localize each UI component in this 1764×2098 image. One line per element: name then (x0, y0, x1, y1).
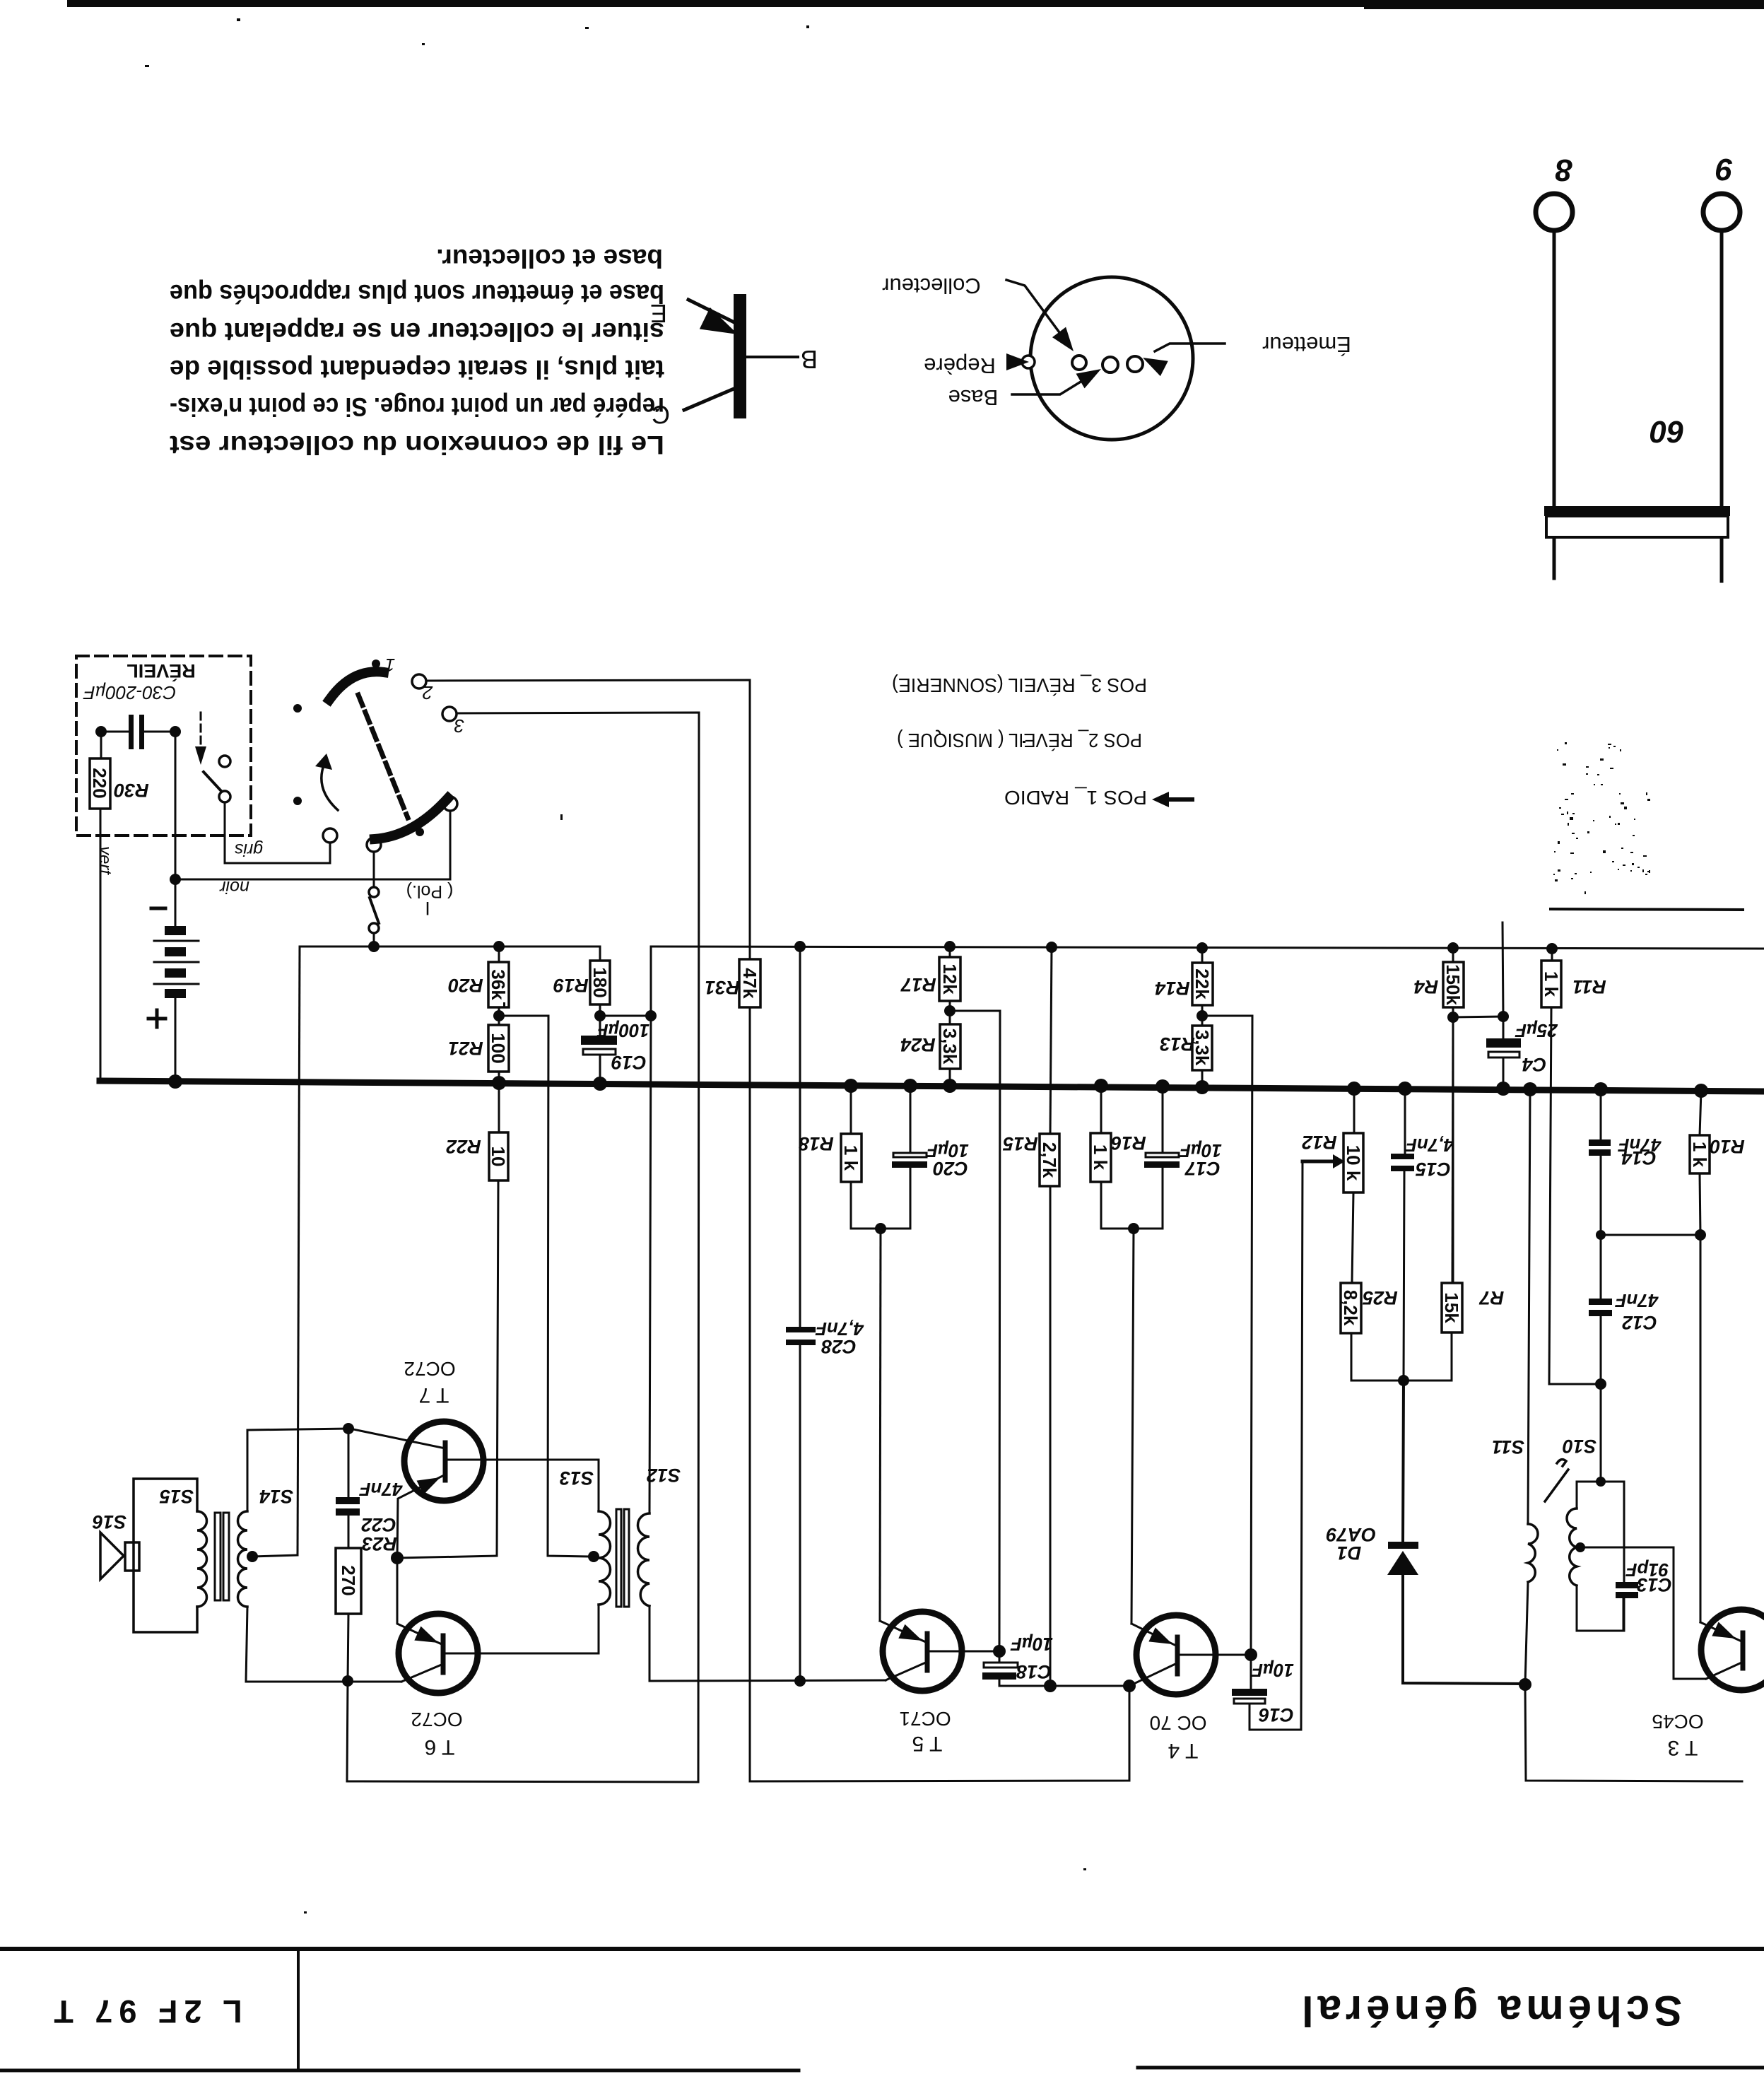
node C20 top (903, 1079, 917, 1093)
svg-text:10µF: 10µF (1010, 1634, 1053, 1655)
wire R16 bottom (1101, 1182, 1134, 1229)
node R13 bottom (1195, 1080, 1209, 1094)
wire D1 bottom (1403, 1575, 1525, 1684)
svg-text:OC71: OC71 (899, 1708, 951, 1730)
wire R25 R7 bottom bus (1351, 1332, 1452, 1381)
battery minus sign (151, 907, 165, 910)
rotary arc dot (416, 828, 424, 836)
node D1 top (1398, 1375, 1409, 1386)
gris contact circle (323, 828, 337, 843)
svg-text:R23: R23 (362, 1533, 397, 1554)
node switch on minus rail (368, 941, 380, 952)
svg-text:POS 1_ RADIO: POS 1_ RADIO (1004, 787, 1147, 809)
svg-text:R31: R31 (705, 977, 740, 998)
svg-text:R13: R13 (1160, 1033, 1195, 1055)
svg-text:S10: S10 (1563, 1436, 1597, 1457)
wire junction down to S10 top (1600, 1384, 1602, 1482)
package pin collecteur (1072, 356, 1086, 370)
svg-text:36k: 36k (488, 969, 509, 1000)
svg-text:9: 9 (1715, 152, 1733, 187)
wire C18 bottom bus (999, 1685, 1129, 1687)
node R14 R13 junction (1196, 1010, 1208, 1021)
wire terminal 3 (457, 713, 699, 1782)
svg-text:R11: R11 (1572, 976, 1606, 997)
battery cell 2 (165, 947, 186, 956)
wire C17 bottom (1134, 1168, 1163, 1229)
svg-text:S11: S11 (1492, 1436, 1524, 1458)
svg-text:T 3: T 3 (1668, 1736, 1698, 1759)
svg-text:C30-200µF: C30-200µF (83, 682, 177, 703)
rotary pivot contact (443, 797, 457, 811)
svg-text:T 5: T 5 (912, 1732, 943, 1755)
resistor R25 (1341, 1283, 1361, 1333)
svg-text:47k: 47k (739, 968, 760, 999)
wire C30 left (101, 731, 129, 733)
scan speckle noise (145, 18, 1650, 1914)
S10 tap (1575, 1542, 1585, 1552)
wire R15 bottom (1049, 1186, 1052, 1686)
T4 emitter (1131, 1624, 1177, 1646)
node C12 S10 junction (1595, 1378, 1606, 1390)
svg-text:noir: noir (218, 877, 249, 897)
wire S12 bottom to T5 collector (649, 1680, 886, 1681)
wire rail A to S14 tap (298, 947, 300, 1555)
svg-text:3: 3 (454, 715, 464, 737)
POS arrow (1163, 797, 1194, 802)
battery plus sign (148, 1010, 165, 1027)
T5 base lead (930, 1651, 999, 1653)
coil S10 (1577, 1482, 1601, 1508)
svg-text:R7: R7 (1478, 1287, 1504, 1308)
paragraph text block (170, 244, 664, 459)
rotary switch upper arc (329, 672, 384, 700)
svg-text:Repère: Repère (924, 353, 996, 378)
svg-text:8,2k: 8,2k (1340, 1290, 1361, 1326)
svg-text:I: I (425, 898, 430, 919)
resistor R18 (841, 1134, 862, 1182)
resistor R30 (90, 758, 110, 809)
svg-text:Émetteur: Émetteur (1262, 332, 1351, 357)
rotary terminal 3 (442, 707, 457, 721)
svg-text:R10: R10 (1710, 1136, 1745, 1157)
speaker S16 (125, 1542, 139, 1571)
reveil switch contact top (219, 756, 230, 767)
wire junction to T5 base column (950, 1011, 1000, 1651)
capacitor C18 (984, 1663, 1018, 1668)
wire node to R30 (100, 732, 102, 758)
T5 emitter (880, 1621, 927, 1643)
svg-text:S13: S13 (560, 1467, 594, 1489)
svg-text:15k: 15k (1441, 1292, 1462, 1323)
wire S12 primary riser (649, 947, 651, 1513)
svg-text:C28: C28 (821, 1336, 857, 1357)
node R12 top (1347, 1082, 1361, 1096)
svg-text:POS 2_ RÉVEIL ( MUSIQUE ): POS 2_ RÉVEIL ( MUSIQUE ) (897, 729, 1142, 751)
minus rail segment A (300, 946, 599, 948)
node T4 base / C16 (1245, 1648, 1257, 1661)
wire C4 stub up (1503, 922, 1503, 1016)
T6 emitter (397, 1558, 443, 1645)
package pin emetteur (1127, 356, 1143, 372)
svg-text:C18: C18 (1016, 1661, 1052, 1682)
svg-text:R12: R12 (1302, 1132, 1337, 1153)
wire junction to S13 tap column (499, 1016, 589, 1557)
wire R12 bottom to R25 (1352, 1192, 1353, 1283)
resistor R21 (488, 1025, 509, 1072)
rotary lower arc (375, 798, 448, 839)
resistor R22 (489, 1132, 508, 1180)
T7 collector (350, 1429, 445, 1448)
terminal 8 (1536, 194, 1572, 230)
capacitor C16 (1232, 1689, 1267, 1696)
svg-text:T 6: T 6 (425, 1735, 455, 1759)
node R16 top (1094, 1079, 1108, 1093)
svg-text:C4: C4 (1522, 1054, 1547, 1075)
svg-text:3,3k: 3,3k (1192, 1030, 1213, 1066)
rotary terminal 2 (412, 674, 426, 688)
battery cell 1 (165, 926, 186, 935)
svg-text:OC45: OC45 (1652, 1711, 1703, 1733)
T6 collector (401, 1664, 443, 1682)
node T5 emitter junction (875, 1223, 886, 1234)
node R11 top (1546, 943, 1558, 954)
rotary switch position dot left upper (293, 704, 302, 713)
svg-text:60: 60 (1650, 414, 1684, 449)
svg-text:R15: R15 (1002, 1133, 1038, 1154)
package repere notch (1022, 356, 1035, 368)
svg-text:1 k: 1 k (1689, 1142, 1710, 1168)
svg-text:E: E (650, 299, 667, 328)
svg-text:R22: R22 (446, 1136, 481, 1157)
node emitter bus (391, 1552, 404, 1564)
node R14 top (1196, 942, 1208, 954)
wire R23 node down to wire A (347, 1681, 698, 1782)
wire T5 emitter riser (880, 1229, 881, 1621)
minus rail segment B (651, 947, 1764, 949)
svg-text:R30: R30 (114, 780, 149, 801)
resistor R15 (1040, 1134, 1059, 1186)
node battery on rail (168, 1074, 182, 1089)
package diagram circle (1030, 277, 1193, 440)
svg-text:R4: R4 (1414, 976, 1439, 997)
svg-text:C15: C15 (1415, 1159, 1451, 1180)
EBC emitter lead (688, 300, 739, 324)
EBC base lead (746, 356, 798, 358)
svg-text:C12: C12 (1622, 1312, 1657, 1333)
node R10 C14 junction (1695, 1229, 1706, 1241)
node R10 top (1694, 1084, 1708, 1098)
capacitor C17 (1146, 1153, 1179, 1157)
node T4 emitter junction (1128, 1223, 1139, 1234)
R12 wiper arrow (1303, 1160, 1333, 1164)
EBC emitter arrow (700, 307, 743, 345)
wire T4 emitter riser (1131, 1229, 1134, 1624)
svg-text:RÉVEIL: RÉVEIL (127, 660, 196, 682)
svg-text:12k: 12k (939, 963, 960, 995)
EBC collector lead (684, 387, 737, 410)
diode D1 (1403, 1381, 1404, 1545)
wire R11 down to S10 (1549, 1007, 1601, 1384)
resistor R10 (1690, 1135, 1710, 1173)
capacitor C4 (1486, 1038, 1521, 1048)
svg-text:R25: R25 (1362, 1287, 1398, 1308)
node C28 column top (794, 941, 806, 952)
S13 center tap node (588, 1551, 599, 1562)
resistor R19 (590, 961, 610, 1004)
audio bottom wire (246, 1681, 401, 1683)
S10 trimmer arrow (1545, 1470, 1568, 1501)
terminal 9 (1703, 194, 1740, 230)
reveil switch blade (204, 772, 221, 791)
T7 base lead to S13 (448, 1459, 599, 1461)
svg-text:C19: C19 (611, 1052, 647, 1073)
wire terminal2 through R31 down (749, 1007, 751, 1781)
T4 collector (1129, 1664, 1175, 1686)
node C30 left (95, 726, 107, 737)
svg-text:270: 270 (338, 1565, 359, 1595)
capacitor C14 (1589, 1139, 1611, 1146)
svg-text:R14: R14 (1155, 978, 1190, 999)
svg-text:situer le collecteur en se rap: situer le collecteur en se rappelant que (170, 317, 664, 346)
T7 emitter (397, 1475, 445, 1558)
svg-text:180: 180 (589, 967, 611, 997)
node R23 bottom (342, 1675, 353, 1687)
node R19 C19 junction (594, 1010, 606, 1021)
capacitor C28 (786, 1327, 816, 1332)
transistor symbol EBC: base bar (734, 294, 746, 418)
resistor R31 (739, 959, 760, 1007)
svg-text:R21: R21 (448, 1038, 483, 1059)
battery cell 3 (165, 968, 186, 978)
node T4 collector (1123, 1680, 1136, 1692)
package pin base (1102, 357, 1118, 373)
rotary switch position dot left lower (293, 797, 302, 805)
node C19 bottom (593, 1077, 607, 1091)
T5 collector (886, 1662, 927, 1680)
potentiometer R12 (1343, 1133, 1363, 1192)
resistor R4 (1443, 962, 1464, 1007)
wire R22 to emitter bus (497, 1180, 498, 1556)
svg-text:2,7k: 2,7k (1039, 1142, 1060, 1178)
wire T4 collector to wire B (750, 1686, 1129, 1781)
reveil switch contact bottom (219, 791, 230, 802)
svg-text:C17: C17 (1184, 1158, 1221, 1179)
svg-text:B: B (801, 345, 818, 374)
svg-text:150k: 150k (1442, 964, 1464, 1005)
title block top rule (0, 1947, 1764, 1951)
svg-text:R18: R18 (799, 1133, 834, 1154)
wire pole I (373, 852, 375, 886)
resistor R7 (1442, 1283, 1462, 1332)
node R17 R24 junction (944, 1005, 956, 1016)
svg-text:Le fil de connexion du collect: Le fil de connexion du collecteur est (170, 430, 664, 459)
battery cell 4 (165, 989, 186, 998)
node R24 bottom (943, 1079, 957, 1093)
svg-text:R24: R24 (900, 1034, 936, 1055)
svg-text:S16: S16 (92, 1511, 127, 1533)
svg-text:base et collecteur.: base et collecteur. (436, 244, 663, 273)
pole I rotor contact (367, 838, 381, 852)
resistor R17 (939, 957, 960, 1001)
svg-text:C14: C14 (1621, 1147, 1657, 1168)
node R15 bottom (1044, 1680, 1057, 1692)
svg-text:base et émetteur sont plus rap: base et émetteur sont plus rapprochés qu… (170, 279, 664, 308)
capacitor C30 (129, 715, 134, 749)
resistor R13 (1192, 1026, 1212, 1070)
transistor T6 (399, 1614, 478, 1693)
rotary rotation arrow (322, 763, 338, 810)
transistor T4 (1136, 1615, 1216, 1694)
svg-text:Collecteur: Collecteur (882, 274, 981, 298)
svg-text:220: 220 (89, 768, 110, 798)
base pointer (1012, 376, 1090, 394)
svg-text:S12: S12 (647, 1465, 681, 1486)
wire C14 bottom to R10 column (1601, 1156, 1700, 1235)
resistor R16 (1090, 1133, 1111, 1182)
capacitor C22 (336, 1497, 360, 1504)
T6 base lead to S13 bottom (446, 1653, 599, 1655)
wire C28 column (799, 947, 801, 1327)
switch I blade (370, 898, 379, 923)
svg-text:R19: R19 (553, 975, 589, 996)
battery B1 minus lead (175, 879, 177, 926)
node D1 S11 (1519, 1678, 1531, 1691)
S14 S15 transformer core (215, 1513, 220, 1600)
node C4 top (1498, 1011, 1509, 1022)
node R21 bottom (492, 1076, 506, 1090)
svg-text:OC 70: OC 70 (1150, 1712, 1207, 1734)
svg-text:R17: R17 (900, 974, 936, 995)
node S10 top (1596, 1477, 1606, 1487)
svg-text:C: C (652, 400, 670, 429)
wire C16 to R12 wiper column (1249, 1704, 1301, 1730)
node C30 right (170, 726, 181, 737)
battery holder bar 60 (1544, 506, 1730, 516)
wire R12 wiper to C16 (1301, 1161, 1303, 1730)
svg-text:C13: C13 (1637, 1574, 1672, 1595)
wire S10 tap to T3 collector (1580, 1547, 1706, 1679)
wire R15 column (1050, 947, 1052, 1134)
node S11 top (1523, 1082, 1537, 1096)
svg-text:100µF: 100µF (596, 1020, 649, 1041)
svg-text:repéré par un point rouge. Si: repéré par un point rouge. Si ce point n… (170, 392, 664, 421)
svg-text:C20: C20 (933, 1158, 968, 1179)
REVEIL dashed box (76, 656, 251, 836)
node C12 top (1596, 1230, 1606, 1240)
wire S11 bottom to edge (1525, 1684, 1742, 1781)
node C4 bottom (1496, 1082, 1510, 1096)
wire junction to C4 (1453, 1016, 1503, 1017)
svg-text:22k: 22k (1192, 968, 1213, 1000)
node R20 top (493, 941, 505, 952)
svg-text:3,3k: 3,3k (939, 1029, 960, 1065)
capacitor C20 (893, 1153, 927, 1157)
transformer winding S13 (598, 1460, 600, 1511)
capacitor C12 (1589, 1299, 1612, 1305)
wire C20 bottom (881, 1168, 910, 1229)
wire emitter bus to R22 (397, 1556, 497, 1558)
svg-text:T 7: T 7 (419, 1383, 449, 1407)
title block divider (297, 1949, 300, 2070)
node R4 C4 junction (1447, 1012, 1459, 1023)
wire R7 top (1452, 1017, 1453, 1283)
wire junction to rail B riser (600, 1015, 651, 1017)
node riser junction (645, 1010, 657, 1021)
node C14 top (1594, 1082, 1608, 1096)
wire C30 right node down to battery (175, 732, 177, 879)
T3 emitter (1700, 1622, 1740, 1641)
transistor T7 (404, 1422, 483, 1501)
svg-text:OA79: OA79 (1327, 1524, 1377, 1545)
svg-text:1: 1 (385, 655, 395, 676)
wire C30 right (144, 731, 175, 733)
switch I contact top (369, 887, 379, 897)
svg-text:POS 3_ RÉVEIL (SONNERIE): POS 3_ RÉVEIL (SONNERIE) (892, 674, 1147, 696)
emetteur pointer (1155, 344, 1225, 351)
resistor R24 (940, 1024, 960, 1069)
svg-text:T 4: T 4 (1168, 1739, 1199, 1762)
resistor R23 (336, 1548, 361, 1614)
collecteur pointer (1006, 280, 1063, 337)
svg-text:1 k: 1 k (1541, 971, 1562, 997)
title block bottom rule (0, 2069, 799, 2073)
svg-text:Schéma général: Schéma général (1298, 1987, 1682, 2034)
svg-text:Base: Base (948, 385, 999, 410)
svg-text:S15: S15 (159, 1486, 194, 1507)
wire terminal 2 (426, 680, 750, 959)
resistor R14 (1192, 963, 1213, 1005)
svg-text:100: 100 (488, 1033, 509, 1063)
wire noir (175, 879, 450, 881)
wire R10 to T3 emitter (1700, 1235, 1702, 1622)
node C15 top (1398, 1082, 1412, 1096)
T3 collector (1706, 1663, 1740, 1679)
node battery top / noir (170, 874, 181, 885)
node T5 base / C18 (993, 1645, 1006, 1658)
svg-text:47nF: 47nF (359, 1479, 404, 1500)
wire S10 C13 link (1601, 1482, 1624, 1582)
svg-text:C22: C22 (361, 1514, 396, 1535)
wire gris (reveil to rotary) (225, 802, 330, 863)
node C17 top (1156, 1079, 1170, 1094)
svg-text:tait plus, il serait cependant: tait plus, il serait cependant possible … (170, 355, 664, 384)
svg-text:25µF: 25µF (1515, 1020, 1558, 1041)
S12 S13 transformer core (616, 1509, 621, 1607)
node R20 R21 junction (493, 1010, 505, 1021)
reveil switch arrow (200, 713, 202, 746)
transformer winding S12 (638, 1513, 649, 1606)
svg-text:4,7nF: 4,7nF (1405, 1135, 1454, 1156)
svg-text:C16: C16 (1258, 1704, 1294, 1725)
svg-text:10 k: 10 k (1343, 1145, 1364, 1181)
wire pivot to noir (449, 811, 452, 879)
coil S11 (1528, 1089, 1530, 1524)
repere pointer arrow (1006, 353, 1029, 370)
transformer S15 box and winding (134, 1479, 197, 1632)
scan border top bar (67, 0, 1764, 7)
thick plus rail (100, 1081, 1764, 1091)
wire junction to T4 base column (1202, 1016, 1252, 1655)
svg-text:gris: gris (235, 840, 263, 860)
T4 base lead (1180, 1654, 1251, 1656)
wire C15 bottom (1404, 1171, 1404, 1381)
cut wire at right edge (1551, 909, 1743, 910)
S14 center tap (247, 1551, 258, 1562)
svg-text:2: 2 (422, 682, 433, 703)
wire R18 bottom (851, 1182, 881, 1229)
rotary switch position dot 1 (372, 660, 380, 668)
capacitor C15 (1391, 1154, 1414, 1159)
